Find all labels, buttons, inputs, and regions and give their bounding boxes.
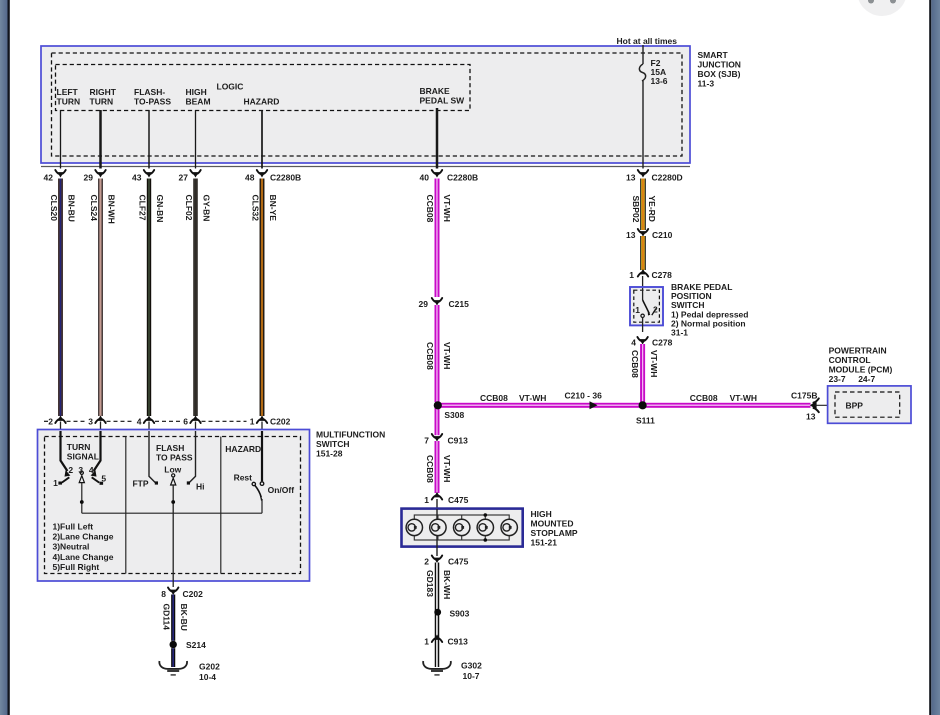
svg-text:BN-WH: BN-WH xyxy=(106,195,116,224)
BPP switch internals xyxy=(642,288,644,300)
connector C202 pin 3 xyxy=(95,416,105,424)
svg-text:SMART: SMART xyxy=(698,50,729,60)
connector C2280B pin 40 xyxy=(432,170,442,178)
svg-text:27: 27 xyxy=(179,173,189,183)
svg-text:VT-WH: VT-WH xyxy=(649,350,659,377)
connector C215 pin 29 xyxy=(432,298,442,306)
SJB outer dashed box xyxy=(52,53,683,156)
FTP contact arm (pin 4 wire) xyxy=(149,431,155,483)
svg-text:VT-WH: VT-WH xyxy=(442,342,452,369)
svg-text:GY-BN: GY-BN xyxy=(201,195,211,222)
svg-text:48: 48 xyxy=(245,173,255,183)
brake pedal position switch box xyxy=(630,287,663,325)
connector C913 pin 7 xyxy=(432,434,442,442)
connector line under SJB xyxy=(41,166,690,168)
svg-text:4)Lane Change: 4)Lane Change xyxy=(53,552,114,562)
svg-text:6: 6 xyxy=(183,417,188,427)
hazard to bus wire xyxy=(261,499,263,513)
svg-text:C278: C278 xyxy=(652,338,673,348)
svg-text:C913: C913 xyxy=(448,436,469,446)
svg-text:13: 13 xyxy=(626,230,636,240)
svg-text:C2280B: C2280B xyxy=(447,173,478,183)
wire flash-to-pass inside SJB xyxy=(148,110,150,169)
lamp bus xyxy=(414,515,509,540)
wire S214 to ground xyxy=(171,648,172,667)
connector C175B pin 13 xyxy=(810,401,817,409)
connector C202 pin 1 xyxy=(257,416,267,424)
wire lead below BPP switch xyxy=(642,318,644,333)
svg-text:2: 2 xyxy=(653,305,658,315)
svg-text:C210 - 36: C210 - 36 xyxy=(565,391,603,401)
wire left turn inside SJB xyxy=(60,110,62,169)
hazard wire (pin 1) to On/Off contact xyxy=(261,431,263,481)
svg-text:FLASH-: FLASH- xyxy=(134,87,165,97)
splice S214 xyxy=(170,641,177,648)
wire lead pin 6 into switch xyxy=(195,422,197,432)
svg-text:24-7: 24-7 xyxy=(858,374,875,384)
svg-text:3)Neutral: 3)Neutral xyxy=(53,542,90,552)
turn signal pole pivot (3) xyxy=(80,471,83,474)
wire CCB08 VT-WH from BPP switch to S111 xyxy=(640,344,642,402)
svg-text:C475: C475 xyxy=(448,495,469,505)
wire CCB08 VT-WH segment 4 xyxy=(435,441,437,493)
svg-text:C278: C278 xyxy=(652,270,673,280)
connector C202 pin 8 xyxy=(168,588,178,596)
svg-text:7: 7 xyxy=(424,436,429,446)
svg-text:On/Off: On/Off xyxy=(268,485,295,495)
svg-text:BN-YE: BN-YE xyxy=(268,195,278,222)
Hi contact arm (pin 6 wire) xyxy=(189,431,195,483)
svg-text:13: 13 xyxy=(806,412,816,422)
wire CLS24 BN-WH xyxy=(98,179,99,417)
section divider 2 xyxy=(220,437,222,574)
svg-text:RIGHT: RIGHT xyxy=(90,87,117,97)
wire lead pin 4 into switch xyxy=(148,422,150,432)
section divider 1 xyxy=(125,437,127,574)
svg-text:GN-BN: GN-BN xyxy=(155,195,165,223)
svg-text:LOGIC: LOGIC xyxy=(217,82,244,92)
ground G202 xyxy=(159,661,187,676)
svg-text:CCB08: CCB08 xyxy=(480,393,508,403)
svg-text:Hi: Hi xyxy=(196,482,205,492)
splice S308 xyxy=(434,401,442,409)
svg-text:GD114: GD114 xyxy=(161,604,171,631)
wire lead into PCM BPP xyxy=(815,404,843,406)
svg-text:1: 1 xyxy=(635,305,640,315)
connector C2280B pin 42 xyxy=(55,170,65,178)
turn signal switch right contact arm (pin 4) xyxy=(94,431,101,471)
svg-text:CLS24: CLS24 xyxy=(89,195,99,222)
svg-text:G302: G302 xyxy=(461,661,482,671)
svg-text:3: 3 xyxy=(78,465,83,475)
svg-text:TURN: TURN xyxy=(57,97,81,107)
svg-text:C202: C202 xyxy=(270,417,291,427)
stoplamp bulb 4 xyxy=(484,515,486,519)
wire lead into stoplamp xyxy=(436,499,438,509)
multifunction switch box xyxy=(38,430,310,582)
svg-text:G202: G202 xyxy=(199,662,220,672)
C202 dashed connector line xyxy=(44,420,49,422)
svg-text:C2280D: C2280D xyxy=(652,173,683,183)
turn signal switch left contact arm (pin 2) xyxy=(61,431,68,471)
svg-text:HAZARD: HAZARD xyxy=(225,444,261,454)
wire CCB08 VT-WH horizontal S308 to S111 xyxy=(437,403,643,405)
wire fuse output xyxy=(642,81,644,169)
svg-text:31-1: 31-1 xyxy=(671,328,688,338)
svg-text:FTP: FTP xyxy=(132,479,148,489)
high mounted stoplamp box xyxy=(402,509,523,547)
svg-text:5: 5 xyxy=(101,474,106,484)
svg-text:VT-WH: VT-WH xyxy=(442,195,452,222)
wire CCB08 VT-WH segment 1 xyxy=(435,179,437,298)
hazard Rest contact xyxy=(252,482,255,485)
MFS inner dashed box xyxy=(45,437,301,574)
svg-text:VT-WH: VT-WH xyxy=(442,455,452,482)
FTP pole wire down and out of box xyxy=(172,485,174,587)
svg-text:TURN: TURN xyxy=(90,97,114,107)
wire right turn inside SJB xyxy=(99,110,102,169)
svg-text:29: 29 xyxy=(419,299,429,309)
svg-text:CLF27: CLF27 xyxy=(137,195,147,221)
svg-text:1: 1 xyxy=(424,637,429,647)
svg-text:SWITCH: SWITCH xyxy=(671,300,705,310)
svg-text:5)Full Right: 5)Full Right xyxy=(53,562,100,572)
svg-text:MULTIFUNCTION: MULTIFUNCTION xyxy=(316,430,385,440)
svg-text:GD183: GD183 xyxy=(425,570,435,597)
connector C2280B pin 43 xyxy=(144,170,154,178)
pole bus wire xyxy=(82,512,262,514)
svg-text:CONTROL: CONTROL xyxy=(829,355,871,365)
wire CCB08 VT-WH segment 3 below S308 xyxy=(435,405,437,435)
wire high beam inside SJB xyxy=(195,110,197,169)
wire CLF27 GN-BN xyxy=(147,179,149,417)
svg-text:42: 42 xyxy=(44,173,54,183)
stoplamp bulb 2 xyxy=(437,515,439,519)
right page border bar xyxy=(929,0,931,715)
svg-text:4: 4 xyxy=(89,465,94,475)
BPP switch dashed box xyxy=(634,290,660,322)
connector C202 pin 4 xyxy=(144,416,154,424)
svg-text:1: 1 xyxy=(53,478,58,488)
svg-text:VT-WH: VT-WH xyxy=(519,393,546,403)
svg-text:SBP02: SBP02 xyxy=(631,196,641,223)
svg-text:13: 13 xyxy=(626,173,636,183)
wire GD183 BK-WH xyxy=(435,563,437,668)
splice S903 xyxy=(434,609,441,616)
svg-text:Rest: Rest xyxy=(234,473,253,483)
svg-text:Hot at all times: Hot at all times xyxy=(617,36,678,46)
turn signal pole wire xyxy=(81,483,83,514)
svg-text:STOPLAMP: STOPLAMP xyxy=(531,528,578,538)
wire hot feed into fuse xyxy=(642,45,644,64)
svg-text:1: 1 xyxy=(424,495,429,505)
svg-text:MODULE (PCM): MODULE (PCM) xyxy=(829,365,893,375)
connector C2280B pin 27 xyxy=(190,170,200,178)
svg-text:POWERTRAIN: POWERTRAIN xyxy=(829,346,887,356)
connector C210 pin 13 xyxy=(638,229,648,237)
svg-text:HAZARD: HAZARD xyxy=(244,97,280,107)
wire SBP02 YE-RD segment 1 xyxy=(640,179,641,231)
stoplamp bulb 3 xyxy=(461,515,463,519)
partial UI circle top right xyxy=(857,0,907,16)
hazard lever xyxy=(255,486,261,498)
svg-text:43: 43 xyxy=(132,173,142,183)
svg-text:S903: S903 xyxy=(450,609,470,619)
wire lead below stoplamp xyxy=(436,547,438,557)
connector C475 pin 1 xyxy=(432,492,442,500)
svg-text:TO-PASS: TO-PASS xyxy=(134,97,171,107)
connector C475 pin 2 xyxy=(432,556,442,564)
svg-text:4: 4 xyxy=(137,417,142,427)
svg-text:1)Full Left: 1)Full Left xyxy=(53,522,94,532)
left page border bar xyxy=(0,0,8,715)
svg-text:MOUNTED: MOUNTED xyxy=(531,519,574,529)
svg-text:FLASH: FLASH xyxy=(156,443,184,453)
svg-text:SIGNAL: SIGNAL xyxy=(67,452,99,462)
svg-text:29: 29 xyxy=(84,173,94,183)
svg-text:CCB08: CCB08 xyxy=(425,195,435,223)
wire CLS32 BN-YE xyxy=(260,179,261,417)
FTP pole pivot xyxy=(172,474,175,477)
svg-text:1: 1 xyxy=(629,270,634,280)
svg-text:11-3: 11-3 xyxy=(698,79,715,89)
svg-text:VT-WH: VT-WH xyxy=(730,393,757,403)
svg-text:SWITCH: SWITCH xyxy=(316,439,350,449)
svg-text:40: 40 xyxy=(420,173,430,183)
svg-text:PEDAL SW: PEDAL SW xyxy=(420,96,466,106)
svg-text:BEAM: BEAM xyxy=(186,97,211,107)
wire SBP02 YE-RD segment 2 xyxy=(640,236,641,270)
svg-text:C202: C202 xyxy=(183,589,204,599)
wire lead into BPP switch xyxy=(642,276,644,288)
connector C202 pin 2 xyxy=(55,416,65,424)
svg-text:LEFT: LEFT xyxy=(57,87,79,97)
svg-text:151-21: 151-21 xyxy=(531,538,558,548)
svg-text:CCB08: CCB08 xyxy=(425,342,435,370)
svg-text:C475: C475 xyxy=(448,557,469,567)
BPP dashed box xyxy=(835,392,900,417)
svg-text:BRAKE: BRAKE xyxy=(420,86,451,96)
svg-text:TURN: TURN xyxy=(67,442,91,452)
bus junction dots xyxy=(484,513,488,517)
svg-text:S214: S214 xyxy=(186,640,206,650)
stoplamp bulb 5 xyxy=(501,519,517,535)
wire brake pedal sw inside SJB xyxy=(436,108,439,169)
SJB inner dashed box (logic) xyxy=(56,65,471,111)
wire CCB08 VT-WH segment 2 xyxy=(435,305,437,402)
svg-text:8: 8 xyxy=(161,589,166,599)
svg-text:C175B: C175B xyxy=(791,391,817,401)
wire lead pin 1 into switch xyxy=(261,422,263,432)
PCM BPP box xyxy=(828,386,911,423)
wire CLS20 BN-BU xyxy=(58,179,60,417)
connector C913 pin 1 xyxy=(432,635,442,643)
svg-text:2)Lane Change: 2)Lane Change xyxy=(53,532,114,542)
wire CLF02 GY-BN xyxy=(193,179,195,417)
svg-text:HIGH: HIGH xyxy=(531,509,552,519)
svg-text:2: 2 xyxy=(48,417,53,427)
svg-text:4: 4 xyxy=(631,338,636,348)
stoplamp bulb 1 xyxy=(406,519,422,535)
svg-text:CCB08: CCB08 xyxy=(690,393,718,403)
svg-text:2: 2 xyxy=(68,465,73,475)
svg-text:13-6: 13-6 xyxy=(651,76,668,86)
svg-text:151-28: 151-28 xyxy=(316,449,343,459)
wire lead pin 2 into switch xyxy=(60,422,62,432)
svg-text:10-7: 10-7 xyxy=(463,671,480,681)
connector C2280B pin 29 xyxy=(95,170,105,178)
svg-text:BPP: BPP xyxy=(846,401,864,411)
svg-text:CLF02: CLF02 xyxy=(184,195,194,221)
fuse F2 15A 13-6 xyxy=(639,64,645,81)
wire lead pin 3 into switch xyxy=(100,422,102,432)
svg-text:10-4: 10-4 xyxy=(199,672,216,682)
smart junction box SJB outline xyxy=(41,46,690,163)
svg-text:CLS20: CLS20 xyxy=(49,195,59,222)
svg-text:C913: C913 xyxy=(448,637,469,647)
svg-text:S308: S308 xyxy=(444,410,464,420)
connector C202 pin 6 xyxy=(190,416,200,424)
svg-text:C215: C215 xyxy=(449,299,470,309)
svg-text:S111: S111 xyxy=(636,416,655,426)
svg-text:3: 3 xyxy=(88,417,93,427)
svg-text:YE-RD: YE-RD xyxy=(647,196,657,222)
svg-text:1: 1 xyxy=(250,417,255,427)
ground G302 xyxy=(423,661,451,676)
svg-text:23-7: 23-7 xyxy=(829,374,846,384)
svg-text:BK-WH: BK-WH xyxy=(442,570,452,599)
svg-text:TO PASS: TO PASS xyxy=(156,453,193,463)
svg-text:BOX (SJB): BOX (SJB) xyxy=(698,69,741,79)
svg-text:BN-BU: BN-BU xyxy=(66,195,76,222)
wire GD114 BK-BU xyxy=(171,595,172,641)
svg-text:C210: C210 xyxy=(652,230,673,240)
connector C2280B pin 48 xyxy=(257,170,267,178)
svg-text:JUNCTION: JUNCTION xyxy=(698,60,741,70)
svg-text:CLS32: CLS32 xyxy=(250,195,260,222)
wire CCB08 VT-WH horizontal S111 to C175B xyxy=(643,403,811,405)
svg-text:Low: Low xyxy=(164,465,181,475)
splice S111 xyxy=(639,401,647,409)
svg-text:HIGH: HIGH xyxy=(186,87,207,97)
connector C278 pin 4 xyxy=(637,337,647,345)
wire hazard inside SJB xyxy=(261,110,263,169)
wire through lamp 2 xyxy=(436,509,438,547)
svg-text:CCB08: CCB08 xyxy=(630,350,640,378)
connector C278 pin 1 xyxy=(638,269,648,277)
connector C2280D pin 13 xyxy=(638,170,648,178)
svg-text:BK-BU: BK-BU xyxy=(179,604,189,631)
svg-text:2: 2 xyxy=(424,557,429,567)
svg-text:C2280B: C2280B xyxy=(270,173,301,183)
svg-text:CCB08: CCB08 xyxy=(425,455,435,483)
